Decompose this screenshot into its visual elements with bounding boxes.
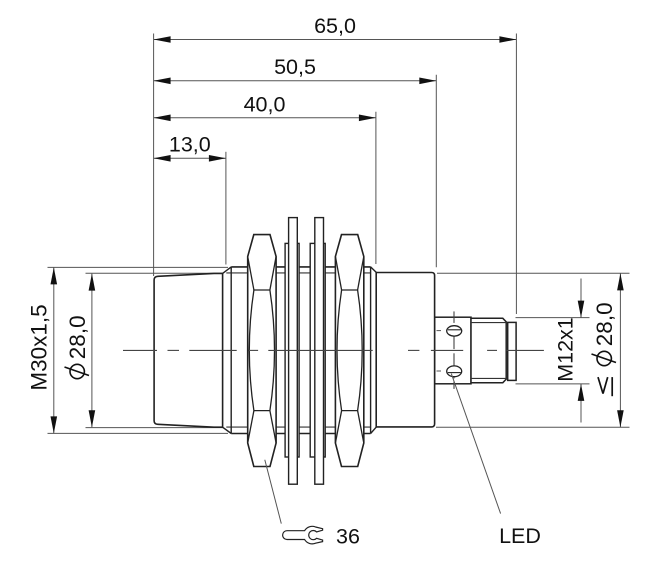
extension line 50,5 right (x=436.3)	[435, 75, 437, 267]
extension lines M12x1 (right)	[516, 317, 590, 319]
extension line left (x=153.6)	[153, 34, 155, 277]
leader line wrench	[265, 460, 282, 524]
thread end chamfer right	[370, 267, 372, 434]
dimension M12x1	[554, 279, 585, 423]
dimension 65,0	[154, 14, 517, 43]
main centerline	[123, 349, 157, 351]
connector LED section	[435, 317, 471, 384]
washer group 1 short plate	[285, 243, 299, 457]
svg-text:13,0: 13,0	[169, 133, 211, 157]
extension lines diameter 28,0 (left)	[86, 272, 224, 274]
dimension 13,0	[154, 133, 226, 162]
svg-text:50,5: 50,5	[274, 55, 316, 79]
extension lines diameter 28,0 (right)	[437, 272, 630, 274]
svg-text:40,0: 40,0	[244, 92, 286, 116]
M30 thread root lines	[226, 272, 370, 274]
extension line 40,0 right (x=375.9)	[375, 112, 377, 264]
M12 thread root lines	[471, 322, 506, 324]
LED upper	[437, 326, 462, 336]
extension line 65,0 right (x=516.4)	[515, 34, 517, 315]
washer group 2 tall plate	[315, 218, 324, 485]
svg-text:28,0: 28,0	[592, 302, 617, 346]
LED vertical centerline	[453, 311, 455, 323]
hex nut 2	[335, 235, 363, 467]
head rear chamfer ring	[223, 267, 232, 274]
dimension 40,0	[154, 92, 376, 121]
connector end ring	[508, 322, 516, 380]
LED lower	[437, 366, 462, 377]
extension lines M30x1,5 (left)	[48, 266, 229, 268]
svg-text:28,0: 28,0	[65, 315, 90, 359]
svg-text:36: 36	[336, 525, 360, 549]
washer group 1 tall plate	[289, 218, 298, 485]
M12 thread body	[471, 318, 506, 382]
dimension M30x1,5	[27, 267, 58, 433]
dimension diameter 28,0 right	[592, 273, 624, 427]
less-or-equal symbol	[598, 377, 612, 396]
extension line 13,0 right (x=225.9)	[225, 152, 227, 265]
wrench icon	[283, 526, 323, 544]
svg-text:LED: LED	[499, 524, 541, 548]
svg-text:65,0: 65,0	[314, 14, 356, 38]
sensor head	[154, 273, 223, 427]
hex nut 1	[248, 235, 276, 467]
washer group 2 short plate	[310, 243, 325, 457]
dimension diameter 28,0 left	[65, 274, 96, 428]
M30 thread outer diameter lines	[231, 266, 370, 268]
leader line LED	[451, 374, 500, 514]
dimension 50,5	[154, 55, 437, 84]
svg-text:M30x1,5: M30x1,5	[27, 304, 52, 390]
main barrel	[376, 273, 434, 427]
svg-text:M12x1: M12x1	[554, 317, 578, 382]
